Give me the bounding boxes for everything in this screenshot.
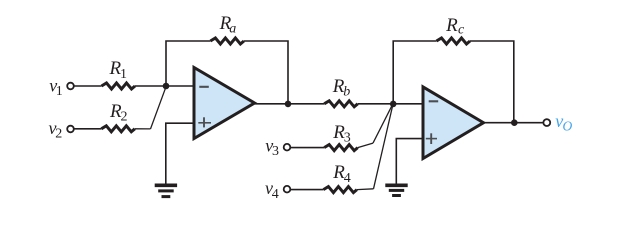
wire R2 stub	[135, 128, 151, 130]
node v3 terminal	[284, 144, 291, 151]
wire Rb to node C	[358, 103, 423, 105]
node v1 terminal	[67, 83, 74, 90]
svg-text:4: 4	[344, 171, 351, 186]
node A junction dot	[163, 83, 170, 90]
resistor R3	[324, 145, 358, 151]
label R3	[332, 122, 351, 146]
svg-text:b: b	[343, 85, 350, 100]
resistor R1	[102, 83, 136, 89]
label v3	[265, 136, 279, 160]
svg-text:1: 1	[120, 67, 127, 82]
node v4 terminal	[284, 186, 291, 193]
svg-text:R: R	[445, 15, 458, 36]
label Ra	[219, 13, 237, 36]
ground (U1 non-inverting input)	[155, 185, 177, 196]
wire U2 plus input to ground	[396, 139, 423, 184]
wire v2 to R2	[74, 128, 101, 130]
node C junction dot	[390, 101, 397, 108]
wire R2 diagonal to node A	[151, 87, 166, 129]
svg-text:1: 1	[56, 84, 63, 99]
label Rb	[332, 76, 351, 100]
node D junction dot	[511, 119, 518, 126]
op-amp U2	[423, 87, 484, 159]
wire v3 to R3	[290, 147, 324, 149]
svg-text:2: 2	[121, 109, 128, 124]
svg-text:c: c	[458, 23, 465, 38]
wire node A up to Ra	[166, 41, 210, 86]
wire R1 to node A	[135, 85, 194, 87]
label Rc	[445, 15, 465, 38]
wire R3 diagonal to node C	[373, 105, 393, 144]
U1 minus pin	[199, 86, 209, 88]
label R1	[109, 58, 128, 82]
label R4	[332, 162, 351, 186]
resistor Ra	[210, 38, 244, 44]
node B junction dot	[285, 101, 292, 108]
wire node C up to Rc	[393, 41, 436, 104]
svg-text:3: 3	[272, 144, 279, 159]
wire node B to Rb	[288, 103, 324, 105]
resistor R4	[323, 187, 357, 193]
wire Rc to node D	[470, 41, 514, 123]
svg-text:3: 3	[344, 130, 351, 145]
wire R4 diagonal to node C	[374, 105, 393, 189]
ground (U2 non-inverting input)	[385, 185, 407, 195]
node v2 terminal	[67, 126, 74, 133]
label v2	[49, 118, 63, 142]
svg-text:4: 4	[272, 187, 279, 202]
U1 plus pin	[198, 117, 211, 127]
U2 minus pin	[429, 100, 439, 102]
label v1	[49, 75, 63, 99]
wire Ra to node B	[244, 41, 288, 104]
wire v4 to R4	[290, 189, 323, 191]
op-amp U1	[194, 68, 255, 139]
svg-text:2: 2	[55, 127, 62, 142]
label v4	[265, 178, 279, 202]
wire R4 stub	[357, 188, 374, 191]
wire U1 plus input to ground	[166, 123, 194, 184]
wire R3 stub	[358, 143, 373, 148]
svg-text:a: a	[229, 21, 236, 36]
label vO	[555, 111, 572, 134]
resistor Rc	[437, 38, 471, 44]
svg-text:O: O	[563, 119, 573, 134]
node vO terminal	[543, 119, 550, 126]
label R2	[109, 101, 128, 125]
U2 plus pin	[426, 133, 437, 144]
wire v1 to R1	[74, 85, 102, 87]
wire U2 output to vO terminal	[484, 122, 544, 124]
resistor R2	[101, 126, 135, 132]
resistor Rb	[324, 101, 358, 107]
wire U1 output to node B	[254, 103, 288, 105]
